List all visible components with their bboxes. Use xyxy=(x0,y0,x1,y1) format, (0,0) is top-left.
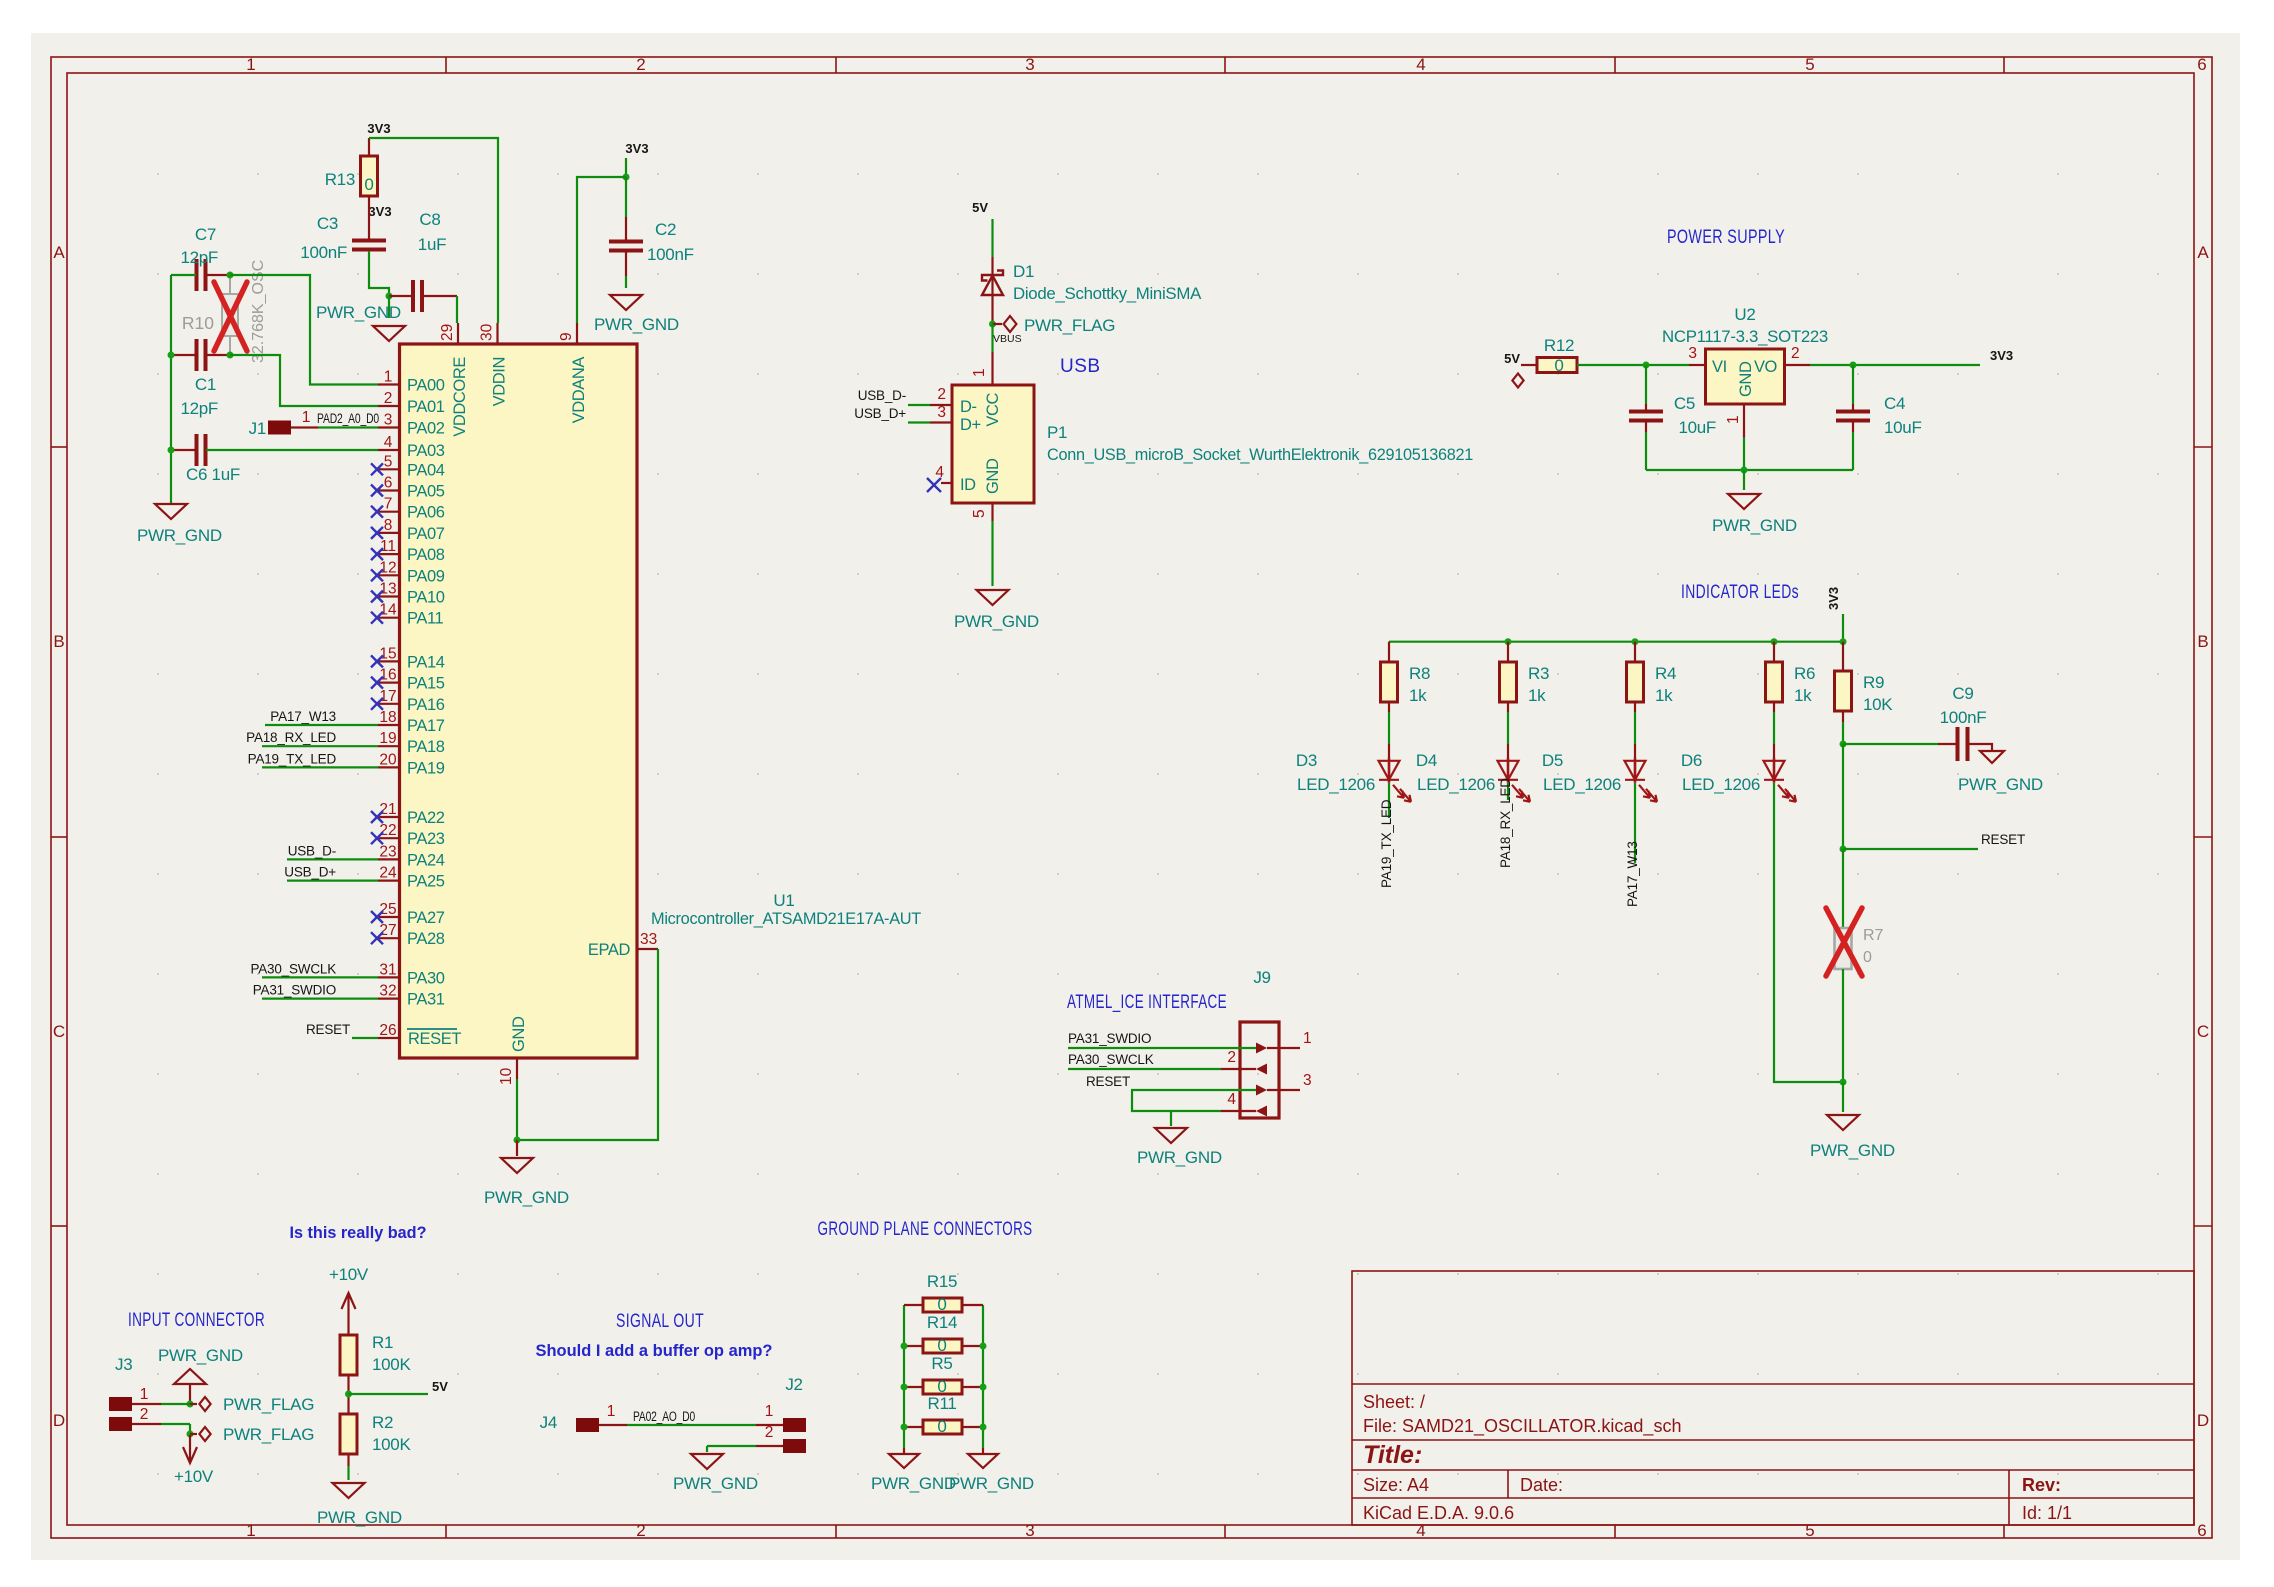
wire R12 to VI xyxy=(1577,364,1689,366)
USB connector P1 body xyxy=(952,385,1034,503)
wire C1 to PA01 xyxy=(230,355,378,406)
ground PWR_GND (gp-right) xyxy=(982,1448,984,1454)
wire R6 to LED xyxy=(1773,702,1775,712)
ground PWR_GND (C3/C8) xyxy=(388,296,390,318)
svg-text:2: 2 xyxy=(636,55,645,74)
junction RESET xyxy=(1840,846,1847,853)
svg-text:R8: R8 xyxy=(1409,664,1430,683)
wire +10V to R1 xyxy=(347,1333,349,1335)
wire PA18_RX_LED xyxy=(262,745,378,747)
wire USB_D- xyxy=(287,858,378,860)
wire PA31_SWDIO xyxy=(262,997,378,999)
resistor R5 xyxy=(904,1386,923,1388)
svg-text:USB: USB xyxy=(1060,356,1101,377)
wire 5V tap xyxy=(349,1393,429,1395)
svg-text:C2: C2 xyxy=(655,220,676,239)
svg-text:4: 4 xyxy=(1416,1521,1425,1540)
svg-text:D5: D5 xyxy=(1542,751,1563,770)
J9 pin 1 xyxy=(1267,1047,1300,1049)
svg-text:0: 0 xyxy=(937,1417,946,1436)
svg-text:Should I add a buffer op amp?: Should I add a buffer op amp? xyxy=(536,1342,773,1360)
svg-text:PA19_TX_LED: PA19_TX_LED xyxy=(248,751,337,766)
svg-text:0: 0 xyxy=(937,1295,946,1314)
svg-text:100nF: 100nF xyxy=(1940,708,1987,727)
svg-text:21: 21 xyxy=(379,801,396,818)
svg-text:C: C xyxy=(2197,1022,2209,1041)
resistor R2 xyxy=(340,1414,357,1454)
wire D3 out xyxy=(1388,783,1390,818)
svg-text:3: 3 xyxy=(1688,345,1697,362)
svg-text:4: 4 xyxy=(1416,55,1425,74)
wire 3V3 drop xyxy=(1842,614,1844,642)
svg-text:PA18_RX_LED: PA18_RX_LED xyxy=(1498,778,1513,868)
svg-text:1: 1 xyxy=(1725,415,1742,424)
R10 DNP cross xyxy=(214,282,247,351)
svg-text:PA17_W13: PA17_W13 xyxy=(1625,841,1640,907)
svg-text:0: 0 xyxy=(1554,356,1563,375)
svg-text:D+: D+ xyxy=(960,416,981,434)
svg-text:U1: U1 xyxy=(773,891,794,910)
U1 pin 22 PA23 xyxy=(378,837,400,839)
svg-text:1: 1 xyxy=(607,1403,616,1420)
svg-text:VCC: VCC xyxy=(984,393,1002,427)
svg-text:18: 18 xyxy=(379,709,396,726)
connector J3 pad 1 xyxy=(109,1397,132,1411)
resistor R14 xyxy=(904,1345,923,1347)
ground PWR_GND osc xyxy=(155,504,187,519)
svg-text:12pF: 12pF xyxy=(180,248,218,267)
wire rail to gnd xyxy=(1743,470,1745,490)
svg-text:PA04: PA04 xyxy=(407,461,445,479)
svg-text:C1: C1 xyxy=(195,375,216,394)
svg-text:PWR_GND: PWR_GND xyxy=(1958,775,2043,794)
power PWR_GND up (J3) xyxy=(174,1369,206,1384)
svg-text:1: 1 xyxy=(246,1521,255,1540)
connector J3 pad 2 xyxy=(109,1417,132,1431)
U1 pin 7 PA06 xyxy=(378,511,400,513)
svg-text:PA30: PA30 xyxy=(407,969,445,987)
LED D3 xyxy=(1379,758,1412,802)
svg-text:PWR_FLAG: PWR_FLAG xyxy=(1024,316,1115,335)
svg-text:PA09: PA09 xyxy=(407,567,445,585)
svg-text:+10V: +10V xyxy=(329,1265,369,1284)
resistor R7 (DNP) xyxy=(1835,928,1852,969)
U1 pin 16 PA15 xyxy=(378,681,400,683)
svg-text:1: 1 xyxy=(140,1386,149,1403)
svg-text:PA31: PA31 xyxy=(407,991,445,1009)
U1 pin 3 PA02 xyxy=(378,426,400,428)
svg-text:5: 5 xyxy=(1805,1521,1814,1540)
svg-text:ID: ID xyxy=(960,476,976,494)
svg-text:J3: J3 xyxy=(115,1355,132,1374)
svg-text:D: D xyxy=(53,1411,65,1430)
svg-text:R7: R7 xyxy=(1863,927,1884,944)
svg-text:PWR_GND: PWR_GND xyxy=(871,1474,956,1493)
svg-text:PA02: PA02 xyxy=(407,420,445,438)
svg-text:PA00: PA00 xyxy=(407,377,445,395)
U2 pin 3 VI xyxy=(1689,364,1705,366)
svg-text:PWR_GND: PWR_GND xyxy=(137,526,222,545)
svg-text:PWR_GND: PWR_GND xyxy=(316,303,401,322)
svg-text:5: 5 xyxy=(384,453,393,470)
wire ground rail (PS) xyxy=(1646,469,1853,471)
svg-text:SIGNAL OUT: SIGNAL OUT xyxy=(616,1311,704,1332)
junction C6 left xyxy=(168,447,175,454)
svg-text:PA17_W13: PA17_W13 xyxy=(270,709,336,724)
wire J2 pin2 to gnd xyxy=(756,1445,783,1447)
svg-text:17: 17 xyxy=(379,688,396,705)
svg-text:PWR_GND: PWR_GND xyxy=(673,1474,758,1493)
junction C3-C8-GND xyxy=(386,293,393,300)
svg-text:10: 10 xyxy=(498,1067,515,1085)
svg-text:10uF: 10uF xyxy=(1884,418,1922,437)
svg-text:R11: R11 xyxy=(927,1394,956,1413)
svg-text:PA17: PA17 xyxy=(407,717,445,735)
svg-text:6: 6 xyxy=(384,475,393,492)
svg-text:PA22: PA22 xyxy=(407,809,445,827)
svg-text:VO: VO xyxy=(1754,358,1778,376)
svg-text:3: 3 xyxy=(1025,55,1034,74)
svg-text:32: 32 xyxy=(379,983,396,1000)
U1 pin 24 PA25 xyxy=(378,879,400,881)
wire U2 gnd to rail xyxy=(1743,437,1745,470)
connector J9 body xyxy=(1240,1022,1279,1118)
svg-text:PWR_GND: PWR_GND xyxy=(317,1508,402,1527)
junction C5 top xyxy=(1643,362,1650,369)
svg-text:KiCad E.D.A. 9.0.6: KiCad E.D.A. 9.0.6 xyxy=(1363,1503,1514,1523)
junction J3 pin2 xyxy=(187,1431,194,1438)
wire USB_D+ (P1) xyxy=(908,421,930,423)
wire R7 to rail xyxy=(1842,969,1844,1082)
wire C7 to PA00 xyxy=(230,275,378,385)
svg-text:R5: R5 xyxy=(931,1354,952,1373)
svg-text:U2: U2 xyxy=(1734,305,1755,324)
wire LED rail xyxy=(1389,641,1843,643)
svg-text:C6 1uF: C6 1uF xyxy=(186,465,240,484)
svg-text:RESET: RESET xyxy=(1981,832,2025,847)
microcontroller U1 body xyxy=(400,344,638,1058)
capacitor C3 xyxy=(352,241,386,250)
svg-text:B: B xyxy=(2197,632,2208,651)
capacitor C9 xyxy=(1958,727,1968,761)
ground PWR_GND (gp-left) xyxy=(903,1448,905,1454)
ground PWR_GND (C2) xyxy=(610,295,642,310)
svg-text:Microcontroller_ATSAMD21E17A-A: Microcontroller_ATSAMD21E17A-AUT xyxy=(651,909,921,928)
svg-text:100nF: 100nF xyxy=(647,245,694,264)
junction C4 top xyxy=(1850,362,1857,369)
svg-text:1: 1 xyxy=(246,55,255,74)
junction R5 left xyxy=(901,1384,908,1391)
P1 pin 2 D- xyxy=(930,404,952,406)
U1 pin 15 PA14 xyxy=(378,660,400,662)
wire rail to R6 xyxy=(1773,642,1775,662)
resistor R8 xyxy=(1381,662,1398,702)
junction U1 GND xyxy=(514,1137,521,1144)
svg-text:PA05: PA05 xyxy=(407,483,445,501)
svg-text:3V3: 3V3 xyxy=(1990,348,2013,363)
resistor R15 xyxy=(904,1304,923,1306)
svg-text:2: 2 xyxy=(1227,1049,1236,1066)
svg-text:PWR_GND: PWR_GND xyxy=(954,612,1039,631)
U1 pin 9 VDDANA xyxy=(576,323,578,344)
wire P1 to GND xyxy=(991,521,993,586)
svg-text:PA14: PA14 xyxy=(407,653,445,671)
svg-text:1k: 1k xyxy=(1409,686,1427,705)
resistor R9 xyxy=(1842,642,1844,671)
svg-text:6: 6 xyxy=(2197,1521,2206,1540)
svg-text:5V: 5V xyxy=(432,1379,448,1394)
svg-text:1k: 1k xyxy=(1528,686,1546,705)
svg-text:A: A xyxy=(2197,243,2209,262)
svg-text:USB_D+: USB_D+ xyxy=(284,865,336,880)
wire R3 to LED xyxy=(1507,702,1509,712)
wire RESET corner xyxy=(1132,1090,1221,1111)
svg-text:LED_1206: LED_1206 xyxy=(1297,775,1375,794)
wire C9 xyxy=(1843,743,1938,745)
svg-text:GND: GND xyxy=(984,458,1002,494)
svg-text:9: 9 xyxy=(558,332,575,341)
capacitor C1 xyxy=(197,339,206,371)
svg-text:PA15: PA15 xyxy=(407,675,445,693)
svg-text:PWR_FLAG: PWR_FLAG xyxy=(223,1395,314,1414)
svg-text:PWR_GND: PWR_GND xyxy=(594,315,679,334)
svg-text:+10V: +10V xyxy=(174,1467,214,1486)
junction rail R9 xyxy=(1840,638,1847,645)
svg-text:C7: C7 xyxy=(195,225,216,244)
U1 pin 26 RESET xyxy=(378,1037,400,1039)
wire R4 to LED xyxy=(1634,702,1636,712)
svg-text:PA23: PA23 xyxy=(407,830,445,848)
svg-text:PWR_FLAG: PWR_FLAG xyxy=(223,1425,314,1444)
svg-text:VDDIN: VDDIN xyxy=(491,357,509,406)
diode D1 xyxy=(991,257,993,324)
connector J2 pad 1 xyxy=(783,1418,806,1432)
svg-text:J9: J9 xyxy=(1253,968,1270,987)
svg-text:19: 19 xyxy=(379,730,396,747)
U1 pin 13 PA10 xyxy=(378,595,400,597)
U1 pin 33 EPAD xyxy=(637,948,658,950)
capacitor C6 xyxy=(197,434,206,466)
svg-text:C4: C4 xyxy=(1884,394,1905,413)
svg-text:C8: C8 xyxy=(419,210,440,229)
svg-text:1: 1 xyxy=(1303,1030,1312,1047)
svg-text:Rev:: Rev: xyxy=(2022,1475,2061,1495)
svg-text:Is this really bad?: Is this really bad? xyxy=(290,1224,427,1242)
svg-text:2: 2 xyxy=(1791,345,1800,362)
svg-text:8: 8 xyxy=(384,517,393,534)
wire R1 to R2 xyxy=(347,1375,349,1414)
U1 pin 11 PA08 xyxy=(378,553,400,555)
wire C6 to ground xyxy=(170,450,172,504)
wire R9 to RESET xyxy=(1842,744,1844,849)
capacitor C4 xyxy=(1836,412,1870,421)
J9 pin 4 xyxy=(1221,1110,1256,1112)
wire PA30_SWCLK to J9 xyxy=(1068,1068,1221,1070)
J9 pin 2 xyxy=(1221,1068,1256,1070)
svg-text:PA31_SWDIO: PA31_SWDIO xyxy=(1068,1031,1151,1046)
wire D4 out xyxy=(1507,783,1509,800)
wire gnd-plane right vertical xyxy=(982,1305,984,1448)
svg-text:10K: 10K xyxy=(1863,695,1893,714)
svg-text:26: 26 xyxy=(379,1022,396,1039)
svg-text:R15: R15 xyxy=(927,1272,957,1291)
svg-text:0: 0 xyxy=(364,175,373,194)
svg-text:2: 2 xyxy=(140,1406,149,1423)
+10V arrow (R1) xyxy=(342,1293,356,1333)
C2 bottom wire xyxy=(625,252,627,276)
svg-text:PWR_GND: PWR_GND xyxy=(484,1188,569,1207)
ground PWR_GND (U1) xyxy=(516,1140,518,1156)
U1 pin 27 PA28 xyxy=(378,937,400,939)
svg-text:PA27: PA27 xyxy=(407,909,445,927)
svg-text:1uF: 1uF xyxy=(418,235,446,254)
wire J9 gnd drop xyxy=(1170,1111,1172,1126)
wire VBUS to P1 xyxy=(991,324,993,352)
R12 dangling diamond xyxy=(1512,374,1523,388)
U1 pin 18 PA17 xyxy=(378,724,400,726)
svg-text:PA28: PA28 xyxy=(407,930,445,948)
junction C9 xyxy=(1840,741,1847,748)
svg-text:100nF: 100nF xyxy=(300,243,347,262)
ground PWR_GND (PS) xyxy=(1728,494,1760,509)
svg-text:Sheet: /: Sheet: / xyxy=(1363,1392,1425,1412)
junction R11 left xyxy=(901,1424,908,1431)
C8 wires xyxy=(389,295,413,297)
wire 5V to D1 xyxy=(991,219,993,257)
svg-text:3: 3 xyxy=(1025,1521,1034,1540)
resistor R3 xyxy=(1500,662,1517,702)
svg-text:3: 3 xyxy=(1303,1072,1312,1089)
svg-text:D3: D3 xyxy=(1296,751,1317,770)
svg-text:RESET: RESET xyxy=(1086,1074,1130,1089)
U1 pin 5 PA04 xyxy=(378,468,400,470)
junction R14 right xyxy=(980,1343,987,1350)
wire PA17_W13 xyxy=(265,724,378,726)
U1 pin 29 VDDCORE xyxy=(457,323,459,344)
U1 pin 25 PA27 xyxy=(378,916,400,918)
U1 pin 6 PA05 xyxy=(378,489,400,491)
U2 pin 2 VO xyxy=(1784,364,1810,366)
svg-text:NCP1117-3.3_SOT223: NCP1117-3.3_SOT223 xyxy=(1662,327,1828,346)
ground PWR_GND (LEDs) xyxy=(1827,1115,1859,1130)
wire PA19_TX_LED xyxy=(262,766,378,768)
svg-text:Date:: Date: xyxy=(1520,1475,1563,1495)
svg-text:D1: D1 xyxy=(1013,262,1034,281)
svg-text:PWR_GND: PWR_GND xyxy=(949,1474,1034,1493)
wire C4 bottom xyxy=(1852,421,1854,432)
svg-text:PA03: PA03 xyxy=(407,442,445,460)
svg-text:0: 0 xyxy=(1863,949,1872,966)
junction R11 right xyxy=(980,1424,987,1431)
U1 pin 1 PA00 xyxy=(378,383,400,385)
svg-text:INDICATOR LEDs: INDICATOR LEDs xyxy=(1681,582,1799,603)
wire 5V to R12 xyxy=(1521,364,1537,366)
svg-text:INPUT CONNECTOR: INPUT CONNECTOR xyxy=(128,1310,265,1331)
svg-text:Id: 1/1: Id: 1/1 xyxy=(2022,1503,2072,1523)
svg-text:PA24: PA24 xyxy=(407,851,445,869)
wire GND pin to junction xyxy=(516,1079,518,1140)
title block text xyxy=(1363,1392,2072,1523)
svg-text:7: 7 xyxy=(384,496,393,513)
ground PWR_GND (R2) xyxy=(333,1483,365,1498)
svg-text:C3: C3 xyxy=(317,214,338,233)
U1 pin 10 GND xyxy=(516,1058,518,1079)
svg-text:PA02_AO_D0: PA02_AO_D0 xyxy=(633,1409,695,1424)
svg-text:LED_1206: LED_1206 xyxy=(1682,775,1760,794)
svg-text:Conn_USB_microB_Socket_WurthEl: Conn_USB_microB_Socket_WurthElektronik_6… xyxy=(1047,445,1473,464)
svg-text:PA30_SWCLK: PA30_SWCLK xyxy=(1068,1052,1154,1067)
C1 wires xyxy=(171,354,196,356)
svg-text:PWR_GND: PWR_GND xyxy=(158,1346,243,1365)
svg-text:15: 15 xyxy=(379,645,396,662)
title block xyxy=(1352,1271,2194,1525)
svg-text:R12: R12 xyxy=(1544,336,1574,355)
wire R8 to LED xyxy=(1388,702,1390,712)
svg-text:POWER SUPPLY: POWER SUPPLY xyxy=(1667,227,1785,248)
wire PA30_SWCLK xyxy=(262,976,378,978)
U1 pin 12 PA09 xyxy=(378,574,400,576)
wire rail to R4 xyxy=(1634,642,1636,662)
svg-text:PAD2_A0_D0: PAD2_A0_D0 xyxy=(317,411,379,426)
U2 pin 1 GND xyxy=(1743,404,1745,437)
svg-text:100K: 100K xyxy=(372,1435,411,1454)
svg-text:2: 2 xyxy=(937,386,946,403)
connector J1 (pad) xyxy=(268,421,291,435)
C6 wires xyxy=(171,449,196,451)
wire C5 leg xyxy=(1645,365,1647,404)
svg-text:1k: 1k xyxy=(1794,686,1812,705)
resistor R13 xyxy=(361,156,378,196)
svg-text:C: C xyxy=(53,1022,65,1041)
svg-text:14: 14 xyxy=(379,602,397,619)
svg-text:R9: R9 xyxy=(1863,673,1884,692)
resistor R12 xyxy=(1537,358,1577,373)
svg-text:PA16: PA16 xyxy=(407,696,445,714)
junction rail R4 xyxy=(1632,638,1639,645)
svg-text:VDDCORE: VDDCORE xyxy=(451,357,469,437)
svg-text:J2: J2 xyxy=(785,1375,802,1394)
svg-text:1k: 1k xyxy=(1655,686,1673,705)
svg-text:27: 27 xyxy=(379,922,396,939)
svg-text:PA01: PA01 xyxy=(407,398,445,416)
power +10V down (J3) xyxy=(183,1435,197,1463)
junction VBUS xyxy=(989,321,996,328)
svg-text:R10: R10 xyxy=(182,313,214,333)
U1 pin 19 PA18 xyxy=(378,745,400,747)
junction 3V3-C2 xyxy=(623,174,630,181)
junction C1 left xyxy=(168,352,175,359)
wire rail to R8 xyxy=(1388,642,1390,662)
svg-text:R3: R3 xyxy=(1528,664,1549,683)
resistor R1 xyxy=(340,1335,357,1375)
svg-text:5V: 5V xyxy=(1504,351,1520,366)
svg-text:PA07: PA07 xyxy=(407,525,445,543)
svg-text:C9: C9 xyxy=(1952,684,1973,703)
junction R5 right xyxy=(980,1384,987,1391)
svg-text:GND: GND xyxy=(510,1016,528,1052)
LED D4 xyxy=(1498,758,1531,802)
svg-text:29: 29 xyxy=(439,324,456,341)
power flag PWR_FLAG 2 xyxy=(190,1433,197,1435)
wire C2 top xyxy=(625,177,627,217)
junction J3 pin1 xyxy=(187,1401,194,1408)
svg-text:Title:: Title: xyxy=(1363,1441,1422,1469)
junction R14 left xyxy=(901,1343,908,1350)
svg-text:VDDANA: VDDANA xyxy=(570,357,588,424)
U1 pin 32 PA31 xyxy=(378,997,400,999)
svg-text:12pF: 12pF xyxy=(180,399,218,418)
junction rail R3 xyxy=(1505,638,1512,645)
